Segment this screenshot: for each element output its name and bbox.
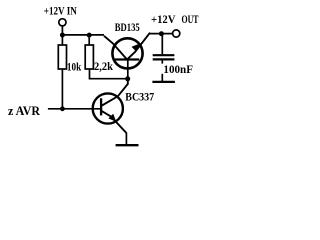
wire z AVR to BC337 base	[48, 108, 101, 110]
ground (capacitor)	[152, 81, 175, 83]
terminal +12V OUT	[173, 30, 180, 37]
terminal +12V IN	[59, 19, 66, 26]
wire right rail	[150, 33, 173, 35]
label 100nF	[161, 64, 194, 74]
svg-text:BC337: BC337	[125, 90, 154, 104]
resistor R2 2,2k	[85, 45, 93, 69]
ground (BC337 emitter)	[116, 144, 139, 146]
node dot BD135 base / BC337 collector / 2,2k	[125, 76, 130, 81]
svg-text:z AVR: z AVR	[8, 104, 40, 118]
transistor Q2 BC337	[93, 79, 128, 144]
wire 2,2k bottom down then right to node	[90, 69, 128, 79]
wire 10k bottom to z AVR line	[61, 69, 63, 109]
svg-text:BD135: BD135	[115, 20, 140, 34]
wire rail down to capacitor	[161, 34, 163, 55]
svg-text:100nF: 100nF	[163, 62, 193, 76]
wire terminal down to rail and resistor top	[61, 26, 63, 45]
transistor Q1 BD135	[104, 33, 150, 79]
node dot right rail	[159, 31, 164, 36]
svg-text:10k: 10k	[67, 60, 82, 74]
svg-text:OUT: OUT	[182, 12, 199, 26]
capacitor C1 100nF	[153, 54, 175, 56]
wire left rail	[62, 34, 104, 36]
wire 2,2k top lead	[88, 35, 90, 45]
node dot rail/2,2k	[87, 33, 92, 38]
svg-text:2,2k: 2,2k	[94, 59, 113, 73]
svg-text:+12V: +12V	[151, 12, 176, 26]
svg-text:+12V IN: +12V IN	[44, 4, 77, 17]
resistor R1 10k	[58, 45, 66, 69]
node dot z AVR / 10k	[60, 106, 65, 111]
node dot rail/10k	[60, 33, 65, 38]
wire capacitor to ground	[161, 60, 163, 81]
